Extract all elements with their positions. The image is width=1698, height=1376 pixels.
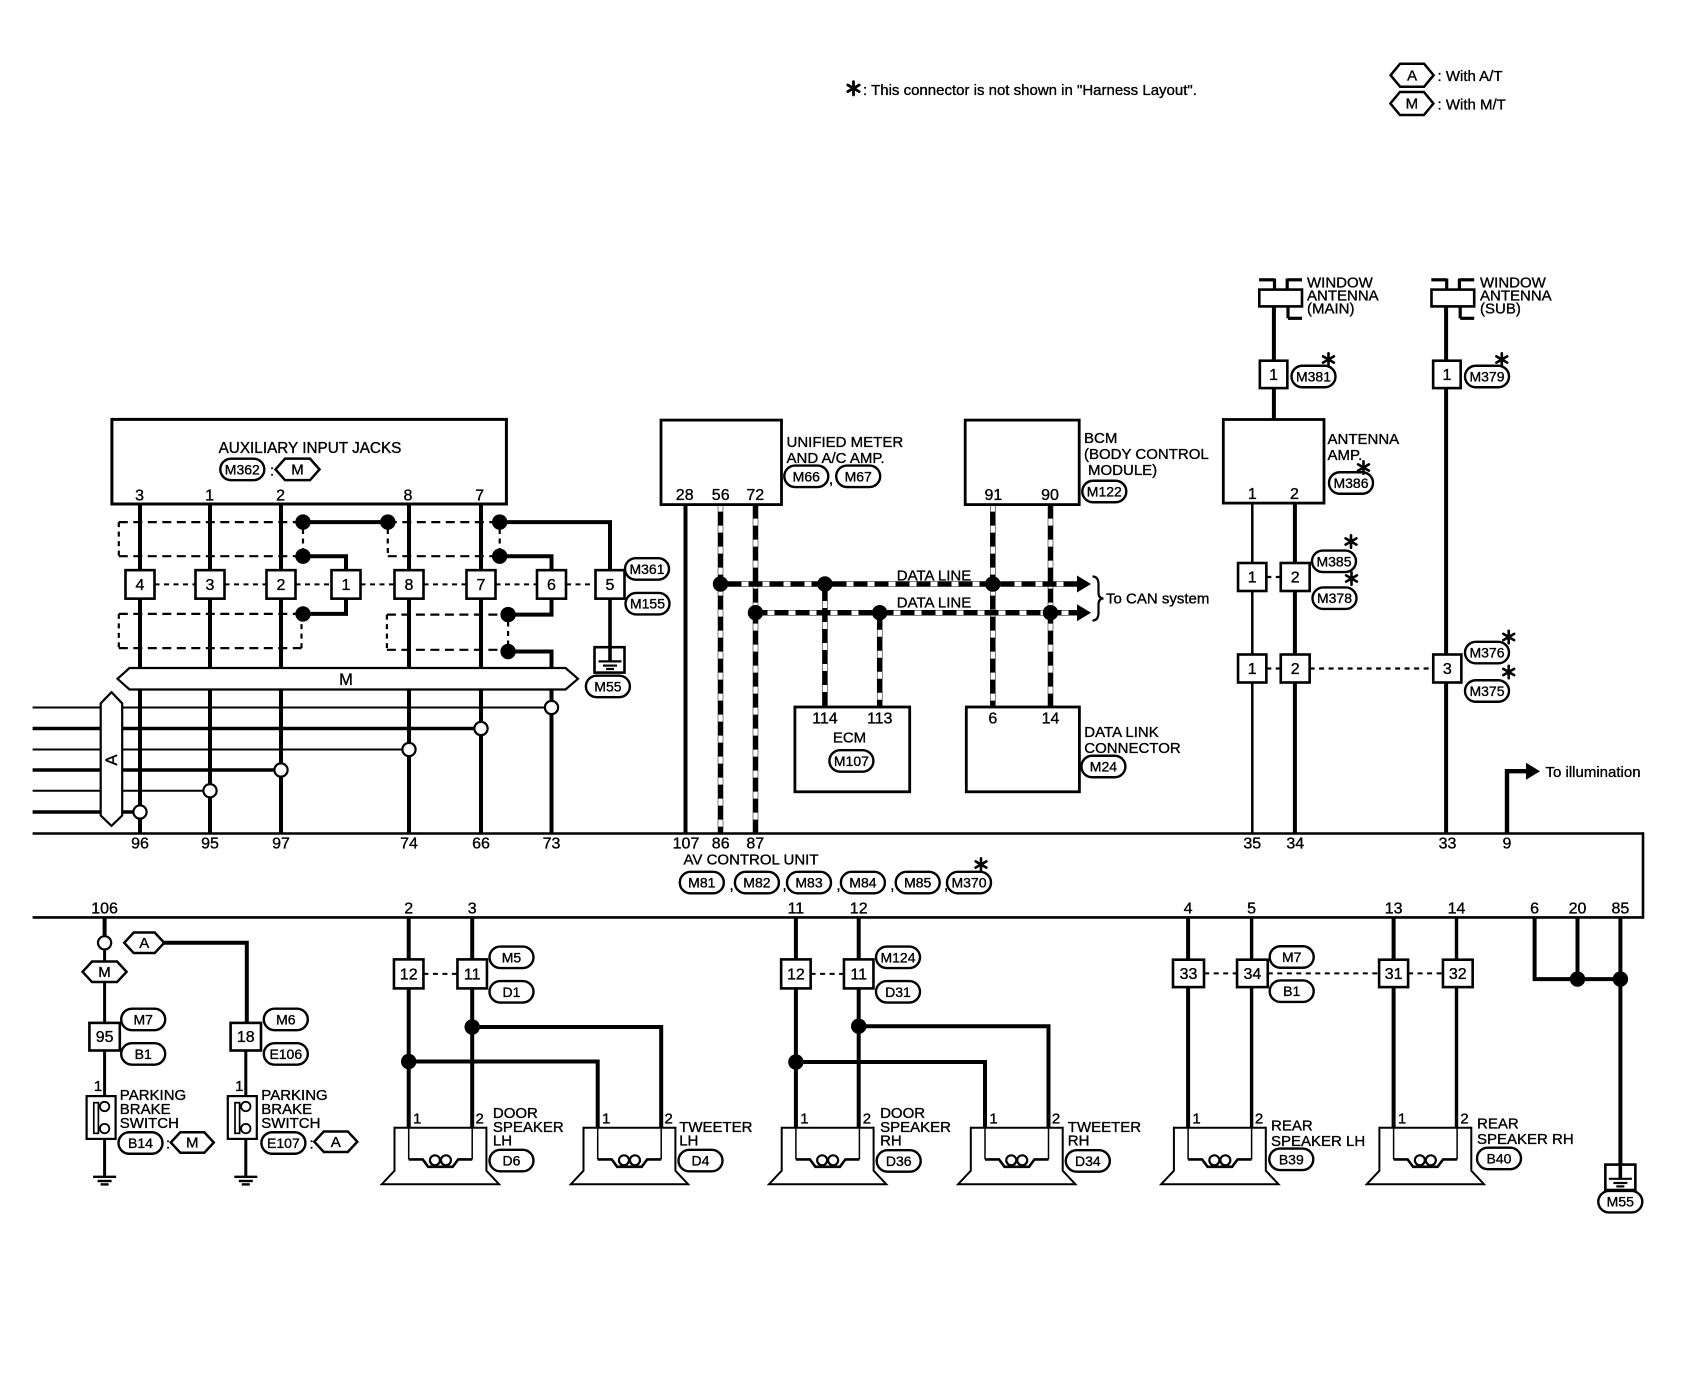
svg-text:12: 12 bbox=[850, 901, 868, 918]
svg-text:1: 1 bbox=[1398, 1110, 1406, 1127]
svg-text:M379: M379 bbox=[1469, 369, 1504, 385]
svg-text:1: 1 bbox=[1248, 661, 1257, 678]
svg-text:M381: M381 bbox=[1296, 369, 1331, 385]
svg-text:M55: M55 bbox=[1607, 1194, 1634, 1210]
svg-text:ANTENNA: ANTENNA bbox=[1328, 431, 1400, 448]
svg-text:12: 12 bbox=[787, 966, 805, 983]
svg-text:D1: D1 bbox=[503, 984, 521, 1000]
svg-text:M81: M81 bbox=[688, 875, 715, 891]
svg-text:18: 18 bbox=[237, 1029, 255, 1046]
svg-text:7: 7 bbox=[477, 577, 486, 594]
svg-text:2: 2 bbox=[1052, 1110, 1060, 1127]
svg-text:SWITCH: SWITCH bbox=[120, 1115, 179, 1132]
svg-text::: : bbox=[310, 1136, 314, 1153]
svg-text:56: 56 bbox=[712, 487, 730, 504]
svg-text:A: A bbox=[103, 754, 121, 765]
svg-text:,: , bbox=[783, 877, 787, 894]
svg-text:E106: E106 bbox=[269, 1046, 302, 1062]
svg-text:1: 1 bbox=[989, 1110, 997, 1127]
svg-text:66: 66 bbox=[472, 836, 490, 853]
svg-text:M5: M5 bbox=[502, 949, 522, 965]
svg-text:M24: M24 bbox=[1090, 759, 1117, 775]
svg-text:M83: M83 bbox=[795, 875, 822, 891]
svg-text:M124: M124 bbox=[880, 949, 915, 965]
svg-text:33: 33 bbox=[1180, 966, 1198, 983]
svg-text:2: 2 bbox=[1290, 486, 1299, 503]
svg-text:RH: RH bbox=[880, 1133, 902, 1150]
svg-text:M107: M107 bbox=[834, 753, 869, 769]
svg-text:A: A bbox=[1407, 67, 1417, 84]
svg-text:D4: D4 bbox=[692, 1153, 710, 1169]
svg-text:M6: M6 bbox=[276, 1011, 296, 1027]
svg-text:1: 1 bbox=[94, 1078, 102, 1095]
svg-text:8: 8 bbox=[405, 577, 414, 594]
svg-text:M: M bbox=[186, 1135, 199, 1152]
svg-text:LH: LH bbox=[493, 1133, 512, 1150]
svg-text:M85: M85 bbox=[904, 875, 931, 891]
svg-text:,: , bbox=[836, 877, 840, 894]
svg-text:11: 11 bbox=[850, 966, 867, 983]
svg-text:LH: LH bbox=[679, 1133, 698, 1150]
svg-text:35: 35 bbox=[1243, 836, 1261, 853]
svg-text:5: 5 bbox=[1247, 901, 1256, 918]
svg-text:1: 1 bbox=[1248, 570, 1257, 587]
svg-text:2: 2 bbox=[277, 577, 286, 594]
svg-text:1: 1 bbox=[1248, 486, 1257, 503]
svg-text:2: 2 bbox=[863, 1110, 871, 1127]
svg-text:(MAIN): (MAIN) bbox=[1307, 301, 1355, 318]
svg-text:34: 34 bbox=[1244, 966, 1262, 983]
svg-text:B39: B39 bbox=[1279, 1151, 1304, 1167]
svg-text:2: 2 bbox=[1291, 661, 1300, 678]
svg-text::: : bbox=[166, 1136, 170, 1153]
svg-text:1: 1 bbox=[602, 1110, 610, 1127]
svg-text:3: 3 bbox=[135, 488, 144, 505]
svg-text:M67: M67 bbox=[845, 468, 872, 484]
svg-text:86: 86 bbox=[712, 836, 730, 853]
svg-text:BCM: BCM bbox=[1084, 430, 1117, 447]
svg-text:D36: D36 bbox=[886, 1153, 912, 1169]
svg-text:2: 2 bbox=[476, 1110, 484, 1127]
svg-text:2: 2 bbox=[1460, 1110, 1468, 1127]
svg-text:85: 85 bbox=[1612, 901, 1630, 918]
svg-text:107: 107 bbox=[673, 836, 700, 853]
svg-text:E107: E107 bbox=[267, 1135, 300, 1151]
svg-text:7: 7 bbox=[475, 488, 484, 505]
svg-text:1: 1 bbox=[800, 1110, 808, 1127]
svg-text:6: 6 bbox=[1530, 901, 1539, 918]
svg-text:90: 90 bbox=[1041, 487, 1059, 504]
svg-text:1: 1 bbox=[342, 577, 351, 594]
svg-text::: : bbox=[270, 463, 274, 480]
svg-text:M155: M155 bbox=[630, 596, 665, 612]
svg-text:M84: M84 bbox=[849, 875, 876, 891]
svg-text:96: 96 bbox=[131, 836, 149, 853]
svg-text:1: 1 bbox=[1192, 1110, 1200, 1127]
svg-text:95: 95 bbox=[201, 836, 219, 853]
svg-text:DATA LINE: DATA LINE bbox=[897, 567, 971, 584]
svg-text:B1: B1 bbox=[1283, 983, 1300, 999]
svg-text:M361: M361 bbox=[629, 561, 664, 577]
svg-text:M: M bbox=[339, 671, 353, 689]
svg-text:1: 1 bbox=[1269, 367, 1278, 384]
svg-text:M385: M385 bbox=[1316, 553, 1351, 569]
svg-text:9: 9 bbox=[1503, 836, 1512, 853]
svg-text:73: 73 bbox=[543, 836, 561, 853]
svg-text:8: 8 bbox=[403, 488, 412, 505]
svg-text:M: M bbox=[291, 462, 304, 479]
svg-text:,: , bbox=[829, 471, 833, 488]
svg-text:20: 20 bbox=[1569, 901, 1587, 918]
svg-text:DATA LINE: DATA LINE bbox=[897, 595, 971, 612]
svg-text:M82: M82 bbox=[743, 875, 770, 891]
svg-text:SWITCH: SWITCH bbox=[261, 1115, 320, 1132]
svg-text:3: 3 bbox=[1443, 661, 1452, 678]
svg-text:3: 3 bbox=[206, 577, 215, 594]
svg-text:AV CONTROL UNIT: AV CONTROL UNIT bbox=[684, 852, 819, 869]
svg-text:1: 1 bbox=[1442, 367, 1451, 384]
svg-text:B40: B40 bbox=[1487, 1150, 1512, 1166]
svg-text:114: 114 bbox=[812, 711, 838, 728]
svg-text:D31: D31 bbox=[885, 984, 911, 1000]
svg-text:14: 14 bbox=[1042, 711, 1060, 728]
svg-text:: With A/T: : With A/T bbox=[1438, 68, 1503, 85]
svg-text:To illumination: To illumination bbox=[1546, 764, 1641, 781]
svg-text:M375: M375 bbox=[1469, 683, 1504, 699]
svg-text:1: 1 bbox=[205, 488, 214, 505]
svg-text:31: 31 bbox=[1385, 966, 1403, 983]
svg-text:(BODY CONTROL: (BODY CONTROL bbox=[1084, 446, 1209, 463]
svg-text:To CAN system: To CAN system bbox=[1106, 591, 1209, 608]
svg-text:2: 2 bbox=[1291, 570, 1300, 587]
svg-text:34: 34 bbox=[1286, 836, 1304, 853]
svg-text:A: A bbox=[139, 935, 149, 952]
svg-text:A: A bbox=[331, 1134, 341, 1151]
svg-text:2: 2 bbox=[1255, 1110, 1263, 1127]
svg-text:: This connector is not shown: : This connector is not shown in "Harnes… bbox=[863, 82, 1197, 99]
svg-text:M55: M55 bbox=[594, 678, 621, 694]
svg-text:M7: M7 bbox=[133, 1011, 153, 1027]
svg-text:B14: B14 bbox=[128, 1135, 153, 1151]
svg-text:AUXILIARY INPUT JACKS: AUXILIARY INPUT JACKS bbox=[219, 440, 402, 457]
svg-text:13: 13 bbox=[1385, 901, 1403, 918]
svg-text:ECM: ECM bbox=[833, 730, 866, 747]
svg-text:1: 1 bbox=[413, 1110, 421, 1127]
svg-text:B1: B1 bbox=[135, 1046, 152, 1062]
svg-text:M7: M7 bbox=[1282, 949, 1302, 965]
svg-text:MODULE): MODULE) bbox=[1088, 462, 1157, 479]
svg-text:UNIFIED METER: UNIFIED METER bbox=[787, 434, 904, 451]
svg-text:CONNECTOR: CONNECTOR bbox=[1084, 740, 1181, 757]
svg-text:M378: M378 bbox=[1317, 590, 1352, 606]
svg-text:M: M bbox=[98, 964, 111, 981]
svg-text:2: 2 bbox=[665, 1110, 673, 1127]
svg-text:,: , bbox=[730, 877, 734, 894]
svg-text:SPEAKER RH: SPEAKER RH bbox=[1477, 1131, 1574, 1148]
svg-text:72: 72 bbox=[746, 487, 764, 504]
svg-text:4: 4 bbox=[1184, 901, 1193, 918]
svg-text:97: 97 bbox=[272, 836, 290, 853]
svg-text:3: 3 bbox=[468, 901, 477, 918]
svg-text:4: 4 bbox=[136, 577, 145, 594]
svg-text:33: 33 bbox=[1439, 836, 1457, 853]
svg-text:M370: M370 bbox=[951, 875, 986, 891]
svg-text:12: 12 bbox=[400, 966, 418, 983]
svg-text:D6: D6 bbox=[503, 1153, 521, 1169]
svg-text:1: 1 bbox=[235, 1078, 243, 1095]
svg-text:M362: M362 bbox=[225, 461, 260, 477]
svg-text:: With M/T: : With M/T bbox=[1438, 96, 1506, 113]
svg-text:14: 14 bbox=[1448, 901, 1466, 918]
svg-text:M122: M122 bbox=[1087, 484, 1122, 500]
svg-text:113: 113 bbox=[867, 711, 893, 728]
svg-text:11: 11 bbox=[788, 901, 805, 918]
svg-text:(SUB): (SUB) bbox=[1480, 301, 1521, 318]
svg-text:28: 28 bbox=[676, 487, 694, 504]
svg-text:M: M bbox=[1406, 96, 1419, 113]
svg-text:AMP.: AMP. bbox=[1328, 447, 1363, 464]
svg-text:6: 6 bbox=[988, 711, 997, 728]
svg-text:5: 5 bbox=[606, 577, 615, 594]
svg-text:74: 74 bbox=[400, 836, 418, 853]
svg-text:87: 87 bbox=[746, 836, 764, 853]
svg-text:M66: M66 bbox=[793, 468, 820, 484]
svg-text:DATA LINK: DATA LINK bbox=[1084, 724, 1158, 741]
svg-text:106: 106 bbox=[91, 901, 118, 918]
svg-text:,: , bbox=[890, 877, 894, 894]
svg-text:95: 95 bbox=[96, 1029, 114, 1046]
svg-text:M376: M376 bbox=[1469, 645, 1504, 661]
svg-text:6: 6 bbox=[547, 577, 556, 594]
svg-text:D34: D34 bbox=[1075, 1153, 1101, 1169]
svg-text:2: 2 bbox=[276, 488, 285, 505]
svg-text:11: 11 bbox=[464, 966, 481, 983]
svg-text:,: , bbox=[944, 877, 948, 894]
svg-text:RH: RH bbox=[1068, 1133, 1090, 1150]
svg-text:M386: M386 bbox=[1333, 475, 1368, 491]
svg-text:32: 32 bbox=[1449, 966, 1467, 983]
svg-text:91: 91 bbox=[985, 487, 1003, 504]
svg-text:2: 2 bbox=[404, 901, 413, 918]
